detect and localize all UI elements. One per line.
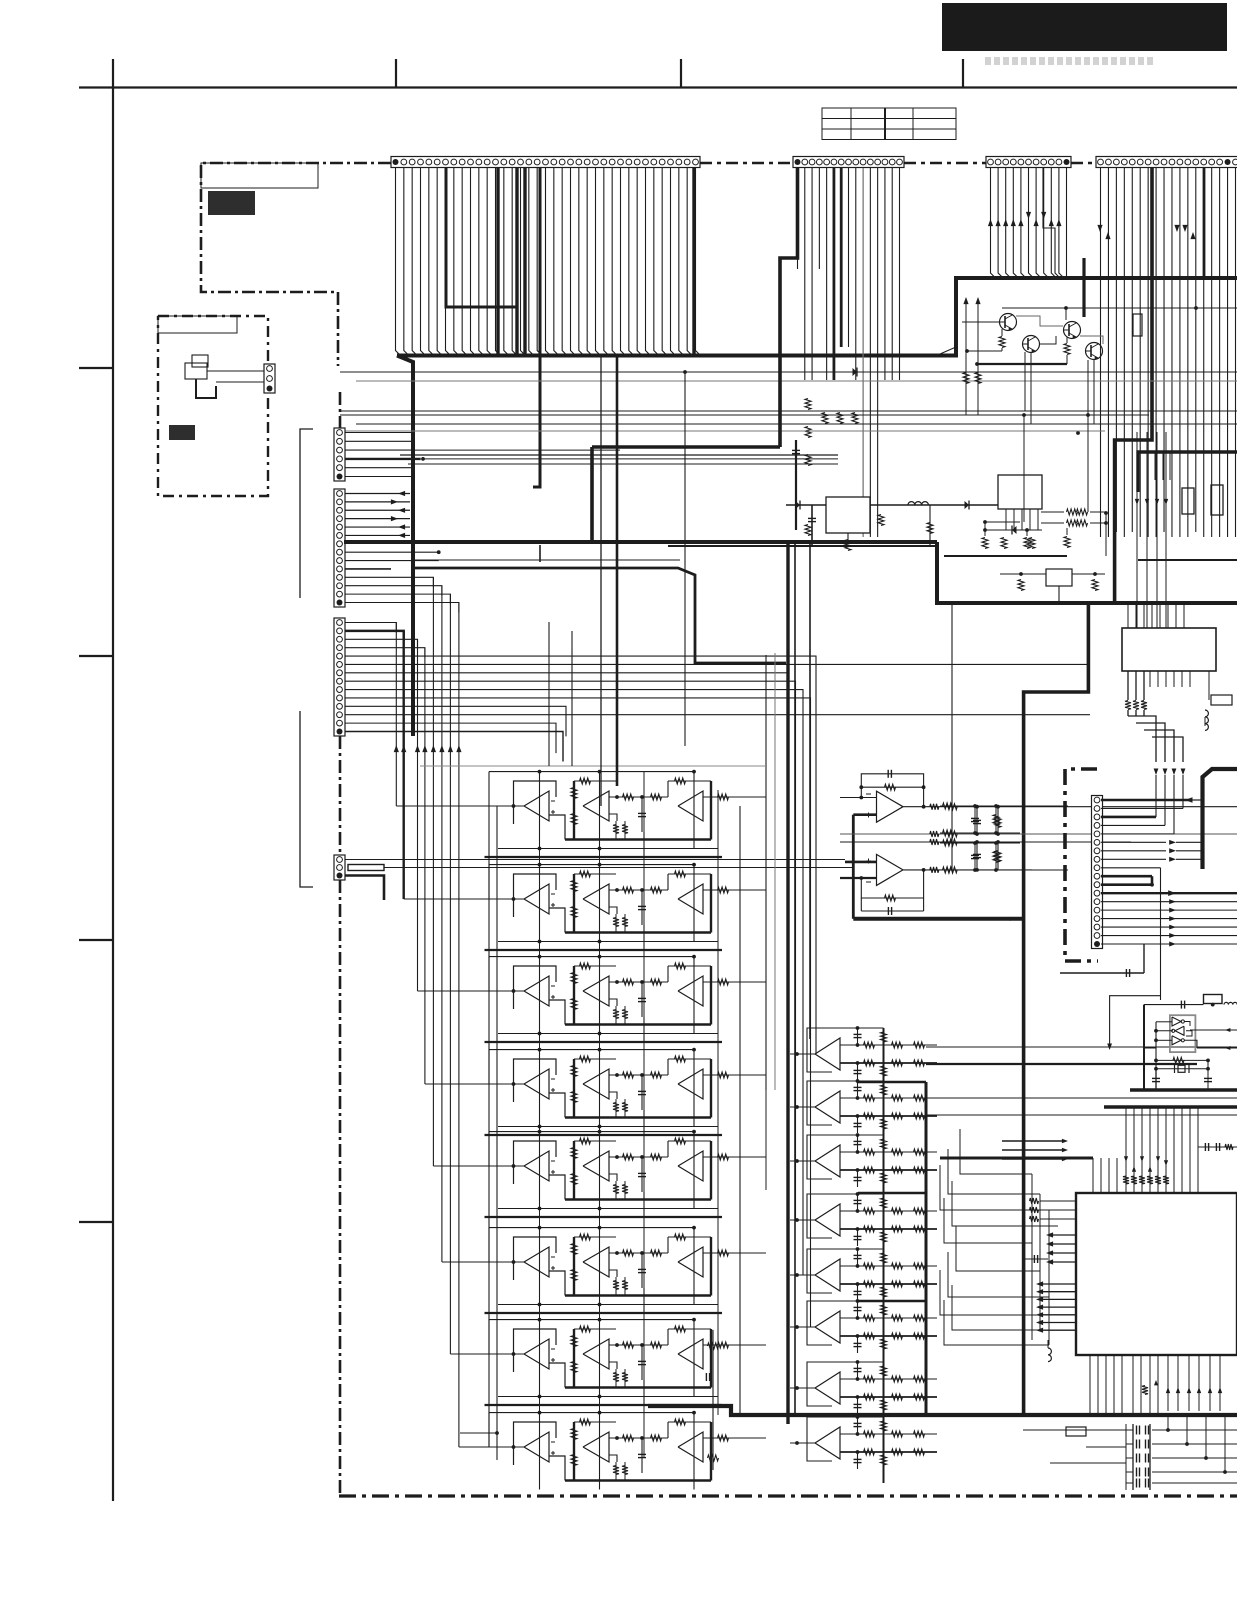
wire U21B output bbox=[609, 796, 668, 798]
op-amp U46 bbox=[807, 1301, 832, 1345]
heavy corner top-right block bbox=[940, 347, 956, 354]
wire U41 lower bbox=[840, 1062, 937, 1064]
capacitor C25a bbox=[641, 1157, 643, 1192]
resistor R25g bbox=[675, 1138, 686, 1144]
resistor R25c bbox=[571, 1174, 577, 1185]
resistor R23c bbox=[571, 999, 577, 1010]
resistor R25e bbox=[651, 1154, 662, 1160]
op-amp U22A bbox=[514, 874, 557, 917]
wire U47 lower bbox=[840, 1396, 937, 1398]
capacitor C27a bbox=[641, 1345, 643, 1380]
long rail x572 bbox=[571, 631, 573, 766]
resistor R24b bbox=[571, 1066, 577, 1077]
resistor R21e bbox=[651, 794, 662, 800]
board name label bbox=[208, 191, 255, 215]
wire U24B output bbox=[609, 1074, 668, 1076]
wire U23B plus bbox=[609, 999, 617, 1006]
resistor R511 bbox=[1142, 1386, 1148, 1395]
CN201 wire p2 bbox=[1101, 807, 1183, 809]
arrow pair under CN105 bbox=[1097, 225, 1102, 232]
resistor R22h bbox=[718, 887, 729, 893]
op-amp U301B bbox=[877, 854, 904, 885]
wire U46 input bbox=[790, 1326, 815, 1328]
diode D903 bbox=[965, 501, 970, 509]
main bus elbow down-left bbox=[397, 356, 413, 737]
capacitor C523 bbox=[1136, 1468, 1138, 1477]
heavy corner x592 bbox=[590, 447, 594, 540]
resistor R27g bbox=[675, 1326, 686, 1332]
wire T901 to CN901 bbox=[207, 370, 264, 372]
wire Q103 link bbox=[1016, 316, 1063, 326]
heavy emitter bus bbox=[977, 363, 1067, 365]
wire PSU local b bbox=[985, 529, 1042, 531]
feedback res loop U301B bbox=[861, 870, 923, 898]
wire Q101 emitter drop bbox=[1024, 352, 1026, 411]
feedback frame U27C bbox=[668, 1328, 711, 1330]
wire U21C output bbox=[703, 796, 766, 798]
IC U305 body bbox=[1122, 628, 1216, 671]
matrix long vertical a bbox=[539, 772, 541, 1481]
driver column part rail bbox=[712, 1330, 714, 1470]
resistor pair R27f bbox=[615, 1369, 617, 1388]
decoupling cap column bbox=[1132, 1424, 1134, 1490]
op-amp U24A bbox=[514, 1059, 557, 1102]
arrow column above U501 bbox=[1124, 1156, 1128, 1162]
resistor R901 bbox=[845, 540, 851, 551]
cap column U42 bbox=[857, 1081, 859, 1098]
capacitor C101 bbox=[795, 440, 797, 530]
top rail row 4 bbox=[489, 1049, 694, 1051]
wire U24C output bbox=[703, 1074, 766, 1076]
capacitor C303 bbox=[976, 842, 978, 870]
heavy drop wire CN105 a bbox=[1115, 168, 1152, 603]
cluster verticals row 8 bbox=[539, 1413, 541, 1490]
feedback frame U26B bbox=[573, 1237, 575, 1296]
top rail row 8 bbox=[489, 1412, 694, 1414]
op-amp U23C bbox=[678, 976, 703, 1006]
resistor R27d bbox=[623, 1342, 634, 1348]
feedback res loop U301A bbox=[861, 786, 923, 788]
matrix long vertical c bbox=[643, 772, 645, 1458]
resistor R27c bbox=[571, 1362, 577, 1373]
connector CN901 bbox=[264, 364, 275, 393]
row divider heavy 4 bbox=[485, 1134, 723, 1136]
driver long out wires bbox=[926, 1046, 1237, 1048]
wire U21A input bbox=[484, 805, 524, 807]
wire fan CN105 down to bus bbox=[1100, 168, 1102, 537]
U305 cap right bbox=[1208, 671, 1210, 700]
U205 output wire b bbox=[1197, 1047, 1237, 1049]
module label box bbox=[158, 316, 237, 333]
module box top-right lower edge bbox=[1138, 559, 1237, 561]
wire U46 upper bbox=[840, 1317, 937, 1319]
IC U501 body bbox=[1076, 1193, 1237, 1355]
resistor R24a bbox=[580, 1056, 591, 1062]
U305 long feeds with down arrows bbox=[1136, 432, 1138, 628]
feedback frame U21B bbox=[573, 781, 575, 840]
CN201 wire p12 heavy long bbox=[1101, 892, 1237, 894]
long rail x601 bbox=[600, 355, 602, 806]
heavy bottom rail row 4 bbox=[565, 1116, 711, 1118]
wire U43 input bbox=[790, 1160, 815, 1162]
connector CN106 bbox=[334, 428, 345, 481]
wire U24B plus bbox=[609, 1092, 617, 1099]
op-amp U27C bbox=[678, 1339, 703, 1369]
CN201 wire p10 heavy bbox=[1101, 875, 1152, 878]
capacitor C522 bbox=[1136, 1454, 1138, 1463]
wire U26B output bbox=[609, 1252, 668, 1254]
board outline dash-dot segments between top connectors bbox=[700, 162, 793, 165]
top rail U48 bbox=[807, 1416, 884, 1418]
border top rule bbox=[79, 86, 1237, 88]
RC grid caps bbox=[974, 806, 976, 833]
resistor R305 bbox=[997, 842, 999, 870]
wire U28B output bbox=[609, 1437, 668, 1439]
rail x760 drop bbox=[765, 1090, 767, 1190]
op-amp U27B bbox=[583, 1339, 609, 1369]
cap column U45 bbox=[857, 1249, 859, 1266]
resistor R22e bbox=[651, 887, 662, 893]
op-amp U21C bbox=[678, 791, 703, 821]
op-amp U42 bbox=[807, 1081, 832, 1125]
heavy bus y1090 bbox=[1130, 1088, 1237, 1092]
border tick left-2 bbox=[79, 655, 113, 657]
top rail row 5 bbox=[489, 1131, 694, 1133]
resistor R21d bbox=[623, 794, 634, 800]
resistor R22d bbox=[623, 887, 634, 893]
wire U903 left bbox=[1000, 573, 1046, 575]
center rail U43 bbox=[883, 1135, 885, 1201]
resistor R27e bbox=[651, 1342, 662, 1348]
wire CN109 p1 bbox=[345, 859, 845, 861]
op-amp U45 bbox=[807, 1249, 832, 1293]
resistor R24c bbox=[571, 1092, 577, 1103]
rail x816 bbox=[815, 660, 817, 1030]
diode D902 bbox=[878, 515, 884, 526]
wire U27A output bbox=[549, 1363, 565, 1388]
op-amp U22B bbox=[583, 884, 609, 914]
heavy wires in CN102 fan bbox=[496, 168, 499, 356]
connector CN201 bbox=[1092, 796, 1103, 949]
resistor pair R101 bbox=[822, 413, 828, 424]
CN201 wire p5 bbox=[1101, 833, 1174, 835]
driver block frame b bbox=[858, 1192, 926, 1195]
riser row 5 bbox=[643, 1192, 645, 1217]
wire fan CN108 riser stairs bbox=[345, 623, 396, 633]
arrow pair rail bbox=[963, 297, 968, 304]
capacitor C22a bbox=[641, 890, 643, 925]
long grey drop wires CN103 bbox=[862, 168, 864, 537]
RC grid wire c bbox=[940, 842, 1020, 844]
wire U27B plus bbox=[609, 1362, 617, 1369]
wire U301B plus input heavy bbox=[845, 861, 877, 864]
cap column U48 bbox=[857, 1417, 859, 1434]
op-amp U25A bbox=[514, 1141, 557, 1184]
top rail row 3 bbox=[489, 956, 694, 958]
heavy bus y1158 bbox=[940, 1157, 1093, 1160]
wire U47 input bbox=[790, 1387, 815, 1389]
wire U903 gnd bbox=[1058, 586, 1060, 603]
resistor R23e bbox=[651, 979, 662, 985]
wire U23A output bbox=[549, 1000, 565, 1025]
top rail U45 bbox=[807, 1248, 884, 1250]
riser row 1 bbox=[643, 832, 645, 857]
wire U23A input bbox=[484, 990, 524, 992]
center rail U41 bbox=[883, 1028, 885, 1094]
center rail U45 bbox=[883, 1249, 885, 1315]
wire U301A minus input bbox=[840, 797, 877, 799]
resistor R28g bbox=[675, 1419, 686, 1425]
resistor R905 bbox=[1092, 580, 1098, 591]
op-amp U26A bbox=[514, 1237, 557, 1280]
arrow feeds into bus y1158 bbox=[1062, 1139, 1068, 1143]
U501 top pin field bbox=[1092, 1158, 1094, 1193]
transistor Q101 bbox=[1000, 314, 1017, 331]
CN201 wire p9 bbox=[1101, 867, 1161, 869]
left feed rail x1032 bbox=[1031, 1174, 1033, 1340]
transformer T901 bbox=[185, 363, 207, 379]
distribution wire net2 bbox=[356, 380, 1237, 382]
wire U42 upper bbox=[840, 1097, 937, 1099]
top rail U44 bbox=[807, 1193, 884, 1195]
border left rule bbox=[112, 59, 114, 1501]
heavy stub x1084 bbox=[1082, 258, 1085, 317]
capacitor C206 bbox=[1207, 1060, 1209, 1089]
wire y464 bbox=[408, 463, 838, 465]
resistor R24g bbox=[675, 1056, 686, 1062]
heavy rail x925 bbox=[925, 1082, 927, 1415]
transistor Q104 bbox=[1086, 343, 1103, 360]
U305 top pins bbox=[1127, 603, 1129, 628]
U305 output stair to CN201 drops bbox=[1128, 716, 1156, 740]
resistor R906 bbox=[982, 538, 988, 549]
coil L201 bbox=[1224, 1002, 1237, 1004]
cluster verticals row 3 bbox=[539, 957, 541, 1034]
U205 input rail bbox=[1155, 1022, 1157, 1069]
capacitor C26a bbox=[641, 1253, 643, 1288]
heavy elbow wire CN102 bbox=[446, 168, 516, 307]
wire Q drop a bbox=[1030, 353, 1032, 424]
wire U43 upper bbox=[840, 1151, 937, 1153]
riser row 4 bbox=[643, 1110, 645, 1135]
top rail row 2 bbox=[489, 864, 694, 866]
op-amp U24B bbox=[583, 1069, 609, 1099]
wire U27A input bbox=[484, 1353, 524, 1355]
diode D101 bbox=[853, 368, 858, 376]
driver block frame a bbox=[858, 1081, 926, 1084]
sub-regulator U903 bbox=[1046, 569, 1072, 586]
row divider heavy 1 bbox=[485, 856, 723, 858]
main bus horizontal (thick) bbox=[397, 278, 1237, 356]
RC grid resistors bbox=[943, 803, 954, 809]
op-amp U23B bbox=[583, 976, 609, 1006]
board outline dash-dot left bus bbox=[339, 392, 342, 428]
transistor top wire bbox=[1002, 307, 1237, 309]
resistor R24h bbox=[718, 1072, 729, 1078]
heavy rail x937 bbox=[937, 542, 1237, 603]
wire U42 lower bbox=[840, 1115, 937, 1117]
wire U28A input bbox=[484, 1446, 524, 1448]
down arrow feed bbox=[1110, 996, 1161, 1044]
top rail U42 bbox=[807, 1080, 884, 1082]
ground rail bottom left wires bbox=[1023, 1429, 1126, 1431]
resistor R304 bbox=[997, 807, 999, 834]
distribution wire net6 bbox=[340, 430, 1105, 432]
border tick top-3 bbox=[962, 59, 964, 88]
wire U28B plus bbox=[609, 1455, 617, 1462]
arrow wire CN104 last bbox=[1066, 168, 1068, 278]
oscillator X201 bbox=[1204, 995, 1223, 1004]
resistor R26b bbox=[571, 1244, 577, 1255]
resistor R21b bbox=[571, 788, 577, 799]
long rail x685 bbox=[684, 372, 686, 746]
op-amp U25C bbox=[678, 1151, 703, 1181]
resistor R26c bbox=[571, 1270, 577, 1281]
wire U44 lower bbox=[840, 1228, 937, 1230]
resistor R23h bbox=[718, 979, 729, 985]
capacitor C205 bbox=[1155, 1069, 1157, 1090]
module outline dash-dot bbox=[158, 316, 268, 496]
U501 left arrows A bbox=[1050, 1234, 1076, 1236]
capacitor C23a bbox=[641, 982, 643, 1017]
resistor pair R25f bbox=[615, 1181, 617, 1200]
feedback frame U28B bbox=[573, 1422, 575, 1481]
op-amp U43 bbox=[807, 1135, 832, 1179]
U205 top wire with cap bbox=[1144, 1004, 1204, 1006]
thin feed x1024 bbox=[1023, 415, 1025, 522]
wire fan CN106 right bbox=[345, 432, 411, 434]
resistor R26e bbox=[651, 1250, 662, 1256]
grey net a bbox=[840, 833, 1237, 835]
wire U24A input bbox=[484, 1083, 524, 1085]
bead FB501 bbox=[1066, 1427, 1086, 1436]
wire Q103 emitter drop bbox=[1087, 360, 1089, 424]
resistor R26g bbox=[675, 1234, 686, 1240]
RC grid dots bbox=[973, 804, 977, 808]
wire U25C output bbox=[703, 1156, 766, 1158]
op-amp U44 bbox=[807, 1194, 832, 1238]
heavy elbow below bus bbox=[1024, 603, 1089, 1415]
matrix vertical rail a bbox=[488, 806, 490, 1447]
cluster verticals row 1 bbox=[539, 772, 541, 849]
heavy bottom rail row 1 bbox=[565, 838, 711, 840]
inductor L901 bbox=[908, 502, 928, 505]
heavy bus y919 left bbox=[853, 917, 1023, 921]
heavy riser x853 bbox=[852, 815, 855, 919]
inverter gate U205A bbox=[1172, 1017, 1181, 1026]
capacitor C524 bbox=[1136, 1479, 1138, 1488]
matrix mid rail bbox=[765, 655, 767, 1090]
op-amp U26C bbox=[678, 1247, 703, 1277]
resistor R410 bbox=[708, 1455, 719, 1461]
resistor R21a bbox=[580, 778, 591, 784]
cap column U47 bbox=[857, 1362, 859, 1379]
heavy bottom rail row 2 bbox=[565, 931, 711, 933]
wire U24A output bbox=[549, 1093, 565, 1118]
op-amp U25B bbox=[583, 1151, 609, 1181]
top rail U47 bbox=[807, 1361, 884, 1363]
wire U22B output bbox=[609, 889, 668, 891]
RC grid wire d bbox=[940, 869, 1068, 871]
single up arrow bbox=[1154, 1380, 1158, 1385]
U501 left arrows B bbox=[1040, 1283, 1076, 1285]
U305 bottom stubs bbox=[1149, 671, 1151, 687]
capacitor C302 bbox=[976, 807, 978, 834]
resistor R28a bbox=[580, 1419, 591, 1425]
U501 bottom pin field bbox=[1089, 1355, 1091, 1415]
revision table bbox=[822, 108, 956, 140]
wire U45 lower bbox=[840, 1283, 937, 1285]
op-amp U301A bbox=[877, 791, 904, 822]
RC grid resistors v bbox=[995, 806, 997, 833]
RC row right of U501 top bbox=[1198, 1146, 1237, 1148]
center rail U42 bbox=[883, 1081, 885, 1147]
resistor R27a bbox=[580, 1326, 591, 1332]
matrix long vertical b bbox=[599, 772, 601, 1481]
stair wires CN107 to risers bbox=[345, 577, 433, 587]
capacitor C901 bbox=[811, 505, 813, 546]
resistor R25b bbox=[571, 1148, 577, 1159]
capacitor C521 bbox=[1136, 1440, 1138, 1449]
wire U301B minus input heavy bbox=[840, 877, 877, 879]
stair fan into buffer bbox=[413, 559, 680, 561]
IC U902 bbox=[998, 475, 1042, 509]
wire fan CN104 down to bus bbox=[991, 168, 996, 278]
resistor R24d bbox=[623, 1072, 634, 1078]
resistor R25a bbox=[580, 1138, 591, 1144]
center rail U46 bbox=[883, 1301, 885, 1367]
transistor Q102 bbox=[1023, 336, 1040, 353]
resistor pair R23f bbox=[615, 1006, 617, 1025]
transistor Q103 bbox=[1064, 322, 1081, 339]
ferrite bead FB1 on CN109 p2 bbox=[348, 865, 384, 871]
grey return wires bbox=[420, 765, 766, 767]
wire PSU input bbox=[786, 504, 826, 506]
heavy rail x780 bbox=[780, 168, 798, 447]
heavy bottom rail row 5 bbox=[565, 1198, 711, 1200]
connector CN107 bbox=[334, 489, 345, 607]
wire CN106 p4 extension bbox=[423, 458, 838, 460]
long rail x617 bbox=[616, 355, 619, 786]
row divider heavy 2 bbox=[485, 949, 723, 951]
resistor R21h bbox=[718, 794, 729, 800]
board outline dash-dot bottom bbox=[339, 1494, 1237, 1497]
heavy stub wire CN102 bbox=[533, 168, 540, 487]
U902 pins bbox=[1005, 509, 1007, 530]
top rail U41 bbox=[807, 1027, 884, 1029]
cluster verticals row 6 bbox=[539, 1228, 541, 1305]
wire CN106 p3 extension bbox=[411, 449, 620, 451]
CN201 long wires p13-p18 bbox=[1101, 901, 1237, 903]
under rail row 3 bbox=[498, 1033, 718, 1035]
cluster verticals row 5 bbox=[539, 1132, 541, 1209]
resistor R904 bbox=[1018, 580, 1024, 591]
resistor R23b bbox=[571, 973, 577, 984]
capacitor C28a bbox=[641, 1438, 643, 1473]
capacitor C902 bbox=[929, 505, 931, 546]
center rail U44 bbox=[883, 1194, 885, 1260]
feedback frame U23C bbox=[668, 965, 711, 967]
wire U45 input bbox=[790, 1274, 815, 1276]
distribution wire net5 bbox=[356, 423, 1237, 425]
resistor R105 bbox=[999, 337, 1005, 348]
diode D901 bbox=[796, 501, 801, 509]
shield outline CN201 bbox=[1065, 769, 1098, 961]
connector CN102 bbox=[391, 157, 700, 168]
connector CN104 bbox=[986, 157, 1071, 168]
heavy wires CN103 bbox=[833, 168, 836, 380]
op-amp U209 ghost bbox=[460, 1432, 497, 1434]
